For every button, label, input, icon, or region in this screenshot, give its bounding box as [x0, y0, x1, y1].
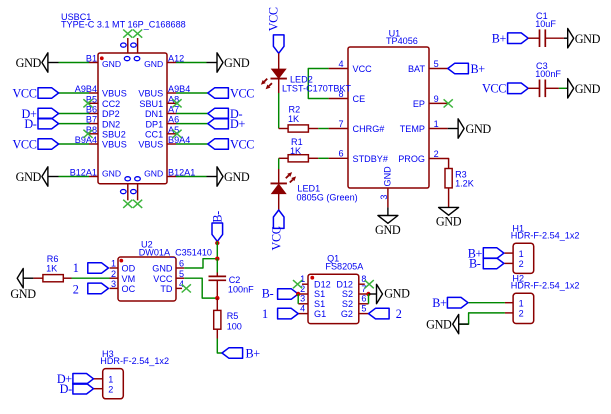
svg-text:1: 1	[262, 307, 268, 321]
svg-text:B+: B+	[471, 62, 486, 76]
svg-text:GND: GND	[144, 169, 163, 179]
svg-text:BAT: BAT	[408, 64, 425, 74]
svg-text:TD: TD	[160, 284, 173, 294]
svg-text:1.2K: 1.2K	[455, 178, 474, 188]
svg-text:GND: GND	[224, 56, 250, 70]
svg-text:S2: S2	[342, 299, 353, 309]
svg-text:HDR-F-2.54_1x2: HDR-F-2.54_1x2	[100, 356, 169, 366]
svg-text:VM: VM	[122, 274, 136, 284]
svg-text:GND: GND	[144, 59, 163, 69]
svg-text:C2: C2	[229, 275, 241, 285]
svg-text:1K: 1K	[46, 264, 57, 274]
svg-text:DN1: DN1	[145, 109, 163, 119]
svg-text:8: 8	[361, 274, 366, 284]
svg-text:G2: G2	[341, 309, 353, 319]
svg-text:B-: B-	[262, 287, 274, 301]
svg-text:3: 3	[111, 279, 116, 289]
svg-text:2: 2	[73, 283, 79, 297]
svg-text:7: 7	[361, 284, 366, 294]
svg-text:DP1: DP1	[145, 119, 163, 129]
svg-text:B+: B+	[492, 32, 507, 46]
svg-text:1: 1	[111, 259, 116, 269]
svg-text:GND: GND	[575, 82, 601, 96]
svg-text:5: 5	[179, 269, 184, 279]
svg-text:VCC: VCC	[12, 86, 36, 100]
svg-text:2: 2	[519, 259, 524, 269]
svg-text:GND: GND	[466, 122, 492, 136]
svg-text:TP4056: TP4056	[386, 36, 418, 46]
svg-text:GND: GND	[224, 170, 250, 184]
svg-text:D+: D+	[230, 117, 245, 131]
svg-text:GND: GND	[16, 170, 42, 184]
svg-text:4: 4	[179, 279, 184, 289]
svg-text:GND: GND	[426, 318, 452, 332]
svg-text:S1: S1	[314, 299, 325, 309]
svg-text:TYPE-C 3.1 MT 16P_C168688: TYPE-C 3.1 MT 16P_C168688	[61, 19, 186, 29]
svg-text:D-: D-	[24, 117, 36, 131]
svg-text:GND: GND	[102, 59, 121, 69]
svg-text:OC: OC	[122, 284, 136, 294]
svg-text:GND: GND	[102, 169, 121, 179]
svg-text:1: 1	[108, 375, 113, 385]
svg-text:GND: GND	[375, 223, 401, 237]
svg-text:5: 5	[434, 59, 439, 69]
svg-text:7: 7	[338, 119, 343, 129]
svg-text:B+: B+	[246, 346, 261, 360]
svg-text:D12: D12	[336, 279, 353, 289]
svg-text:1K: 1K	[288, 114, 299, 124]
svg-text:G1: G1	[314, 309, 326, 319]
svg-text:2: 2	[111, 269, 116, 279]
svg-text:100nF: 100nF	[228, 285, 254, 295]
svg-text:5: 5	[361, 303, 366, 313]
svg-text:3: 3	[379, 195, 389, 200]
svg-text:2: 2	[434, 149, 439, 159]
svg-text:VCC: VCC	[230, 86, 254, 100]
svg-text:STDBY#: STDBY#	[353, 154, 389, 164]
svg-text:DN2: DN2	[102, 119, 120, 129]
svg-text:GND: GND	[16, 56, 42, 70]
svg-text:FS8205A: FS8205A	[325, 262, 364, 272]
svg-text:6: 6	[361, 294, 366, 304]
svg-text:VCC: VCC	[153, 274, 173, 284]
svg-text:PROG: PROG	[398, 154, 425, 164]
svg-text:1: 1	[300, 274, 305, 284]
svg-text:VCC: VCC	[482, 82, 506, 96]
svg-text:D-: D-	[60, 382, 72, 396]
svg-text:0805G (Green): 0805G (Green)	[297, 193, 358, 203]
svg-text:GND: GND	[384, 287, 410, 301]
svg-text:HDR-F-2.54_1x2: HDR-F-2.54_1x2	[511, 281, 580, 291]
svg-text:EP: EP	[413, 99, 425, 109]
svg-text:OD: OD	[122, 264, 136, 274]
svg-text:R5: R5	[227, 311, 239, 321]
svg-text:VBUS: VBUS	[102, 140, 127, 150]
svg-text:HDR-F-2.54_1x2: HDR-F-2.54_1x2	[511, 231, 580, 241]
svg-text:100nF: 100nF	[535, 69, 561, 79]
svg-text:1: 1	[519, 298, 524, 308]
svg-text:VCC: VCC	[267, 7, 281, 31]
svg-text:DP2: DP2	[102, 109, 120, 119]
svg-text:3: 3	[300, 294, 305, 304]
svg-text:S1: S1	[314, 289, 325, 299]
svg-text:GND: GND	[383, 166, 393, 187]
svg-text:CHRG#: CHRG#	[353, 124, 386, 134]
svg-text:B-: B-	[210, 211, 224, 223]
svg-text:2: 2	[396, 307, 402, 321]
svg-text:10uF: 10uF	[535, 19, 556, 29]
svg-text:6: 6	[179, 259, 184, 269]
svg-text:VCC: VCC	[230, 137, 254, 151]
svg-text:B+: B+	[432, 296, 447, 310]
svg-text:GND: GND	[436, 214, 462, 228]
svg-text:DW01A_C351410: DW01A_C351410	[139, 248, 212, 258]
svg-text:B-: B-	[469, 257, 481, 271]
svg-text:CC1: CC1	[145, 130, 163, 140]
svg-text:VCC: VCC	[12, 137, 36, 151]
svg-text:VBUS: VBUS	[138, 89, 163, 99]
svg-text:1: 1	[434, 119, 439, 129]
svg-text:S2: S2	[342, 289, 353, 299]
svg-text:SBU2: SBU2	[102, 130, 126, 140]
svg-text:6: 6	[338, 149, 343, 159]
svg-text:9: 9	[434, 94, 439, 104]
svg-text:4: 4	[338, 59, 343, 69]
svg-text:GND: GND	[152, 264, 173, 274]
svg-text:LTST-C170TBKT: LTST-C170TBKT	[282, 83, 352, 93]
svg-text:2: 2	[300, 284, 305, 294]
svg-text:VBUS: VBUS	[102, 89, 127, 99]
svg-text:2: 2	[519, 309, 524, 319]
svg-text:VBUS: VBUS	[138, 140, 163, 150]
svg-text:VCC: VCC	[270, 226, 284, 250]
svg-text:D12: D12	[314, 279, 331, 289]
svg-text:GND: GND	[575, 32, 601, 46]
svg-text:100: 100	[227, 322, 242, 332]
svg-text:1: 1	[519, 249, 524, 259]
svg-text:4: 4	[300, 303, 305, 313]
svg-text:SBU1: SBU1	[139, 99, 163, 109]
svg-text:TEMP: TEMP	[400, 124, 425, 134]
svg-text:VCC: VCC	[353, 64, 373, 74]
svg-text:1: 1	[73, 261, 79, 275]
svg-text:CC2: CC2	[102, 99, 120, 109]
svg-text:GND: GND	[10, 287, 36, 301]
svg-text:2: 2	[108, 384, 113, 394]
svg-text:CE: CE	[353, 94, 366, 104]
